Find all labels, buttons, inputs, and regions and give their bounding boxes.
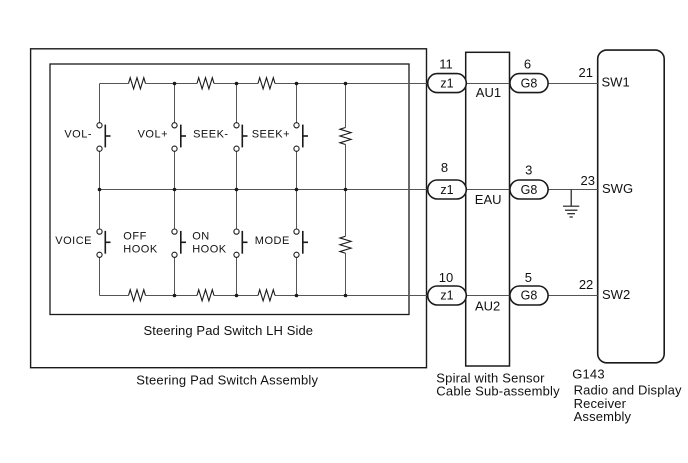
svg-text:HOOK: HOOK: [192, 244, 227, 256]
wire: column 5 (pull-up resistor branch): [345, 84, 347, 296]
resistor bottom bus 2-3: [197, 290, 214, 301]
svg-text:G8: G8: [521, 289, 538, 303]
svg-text:10: 10: [439, 270, 453, 285]
svg-text:SEEK-: SEEK-: [193, 128, 229, 140]
svg-text:Steering Pad Switch Assembly: Steering Pad Switch Assembly: [136, 372, 318, 387]
svg-text:G143: G143: [572, 366, 605, 381]
junction dots middle bus: [98, 188, 348, 192]
switch ON HOOK: [234, 229, 248, 257]
wire: column 2 (VOL+ / OFF HOOK branch): [174, 84, 176, 296]
switch label ON HOOK: [192, 231, 227, 256]
svg-text:OFF: OFF: [123, 231, 147, 243]
switch MODE: [294, 229, 308, 257]
wire: column 4 (SEEK+ / MODE branch): [296, 84, 298, 296]
svg-text:11: 11: [439, 57, 453, 72]
svg-text:5: 5: [525, 270, 532, 285]
connector G8 pin 5 oval: [510, 286, 548, 305]
switch OFF HOOK: [172, 229, 186, 257]
switch VOICE: [97, 229, 111, 257]
wire: column 1 (VOL- / VOICE branch): [99, 84, 101, 296]
svg-text:8: 8: [441, 160, 448, 175]
svg-text:23: 23: [581, 173, 595, 188]
svg-text:VOL+: VOL+: [138, 128, 168, 140]
resistor top bus 1-2: [129, 78, 146, 89]
svg-text:G8: G8: [521, 183, 538, 197]
switch VOL+: [172, 123, 186, 152]
wire: middle bus EAU (y=189.5): [100, 189, 598, 191]
svg-text:22: 22: [579, 277, 593, 292]
connector z1 pin 8 oval: [428, 180, 467, 199]
resistor top bus 3-4: [258, 78, 275, 89]
svg-text:z1: z1: [440, 289, 453, 303]
resistor top bus 2-3: [197, 78, 214, 89]
switch SEEK+: [294, 123, 308, 152]
svg-text:HOOK: HOOK: [123, 244, 158, 256]
outer box: Steering Pad Switch Assembly: [31, 49, 427, 368]
connector G8 pin 3 oval: [510, 180, 548, 199]
svg-text:SW1: SW1: [602, 74, 630, 89]
svg-text:Cable Sub-assembly: Cable Sub-assembly: [436, 384, 560, 399]
wire: bottom bus AU2 (y=295.5): [100, 295, 598, 297]
svg-text:Assembly: Assembly: [574, 409, 632, 424]
connector G8 pin 6 oval: [510, 74, 548, 93]
switch label OFF HOOK: [123, 231, 158, 256]
junction dots bottom bus: [173, 294, 348, 298]
caption Spiral with Sensor Cable Sub-assembly: [436, 370, 560, 398]
svg-text:ON: ON: [192, 231, 210, 243]
resistor bottom bus 1-2: [129, 290, 146, 301]
resistor vertical upper (column 5): [340, 128, 351, 145]
svg-text:AU2: AU2: [475, 298, 500, 313]
inner box: Steering Pad Switch LH Side: [50, 64, 409, 315]
resistor bottom bus 3-4: [258, 290, 275, 301]
wire: top bus AU1 (y=83): [100, 83, 598, 85]
connector z1 pin 11 oval: [428, 74, 467, 93]
wire: column 3 (SEEK- / ON HOOK branch): [236, 84, 238, 296]
spiral cable sub-assembly box: [466, 52, 510, 366]
junction dots top bus: [173, 82, 348, 86]
switch SEEK-: [234, 123, 248, 152]
svg-text:VOL-: VOL-: [64, 128, 92, 140]
switch VOL-: [97, 123, 111, 152]
svg-text:z1: z1: [440, 183, 453, 197]
svg-text:VOICE: VOICE: [55, 235, 92, 247]
svg-text:EAU: EAU: [475, 192, 502, 207]
svg-text:MODE: MODE: [255, 235, 290, 247]
svg-text:SW2: SW2: [602, 287, 630, 302]
connector z1 pin 10 oval: [428, 286, 467, 305]
svg-text:Steering Pad Switch LH Side: Steering Pad Switch LH Side: [144, 323, 314, 338]
svg-text:SWG: SWG: [602, 181, 633, 196]
svg-text:z1: z1: [440, 77, 453, 91]
svg-text:SEEK+: SEEK+: [252, 128, 290, 140]
radio and display receiver box G143: [598, 50, 665, 363]
svg-text:G8: G8: [521, 77, 538, 91]
resistor vertical lower (column 5): [340, 236, 351, 253]
svg-text:3: 3: [525, 162, 532, 177]
svg-text:21: 21: [579, 65, 593, 80]
caption Radio and Display Receiver Assembly: [574, 382, 682, 424]
svg-text:AU1: AU1: [476, 85, 501, 100]
svg-text:6: 6: [524, 57, 531, 72]
ground symbol: [563, 190, 579, 218]
